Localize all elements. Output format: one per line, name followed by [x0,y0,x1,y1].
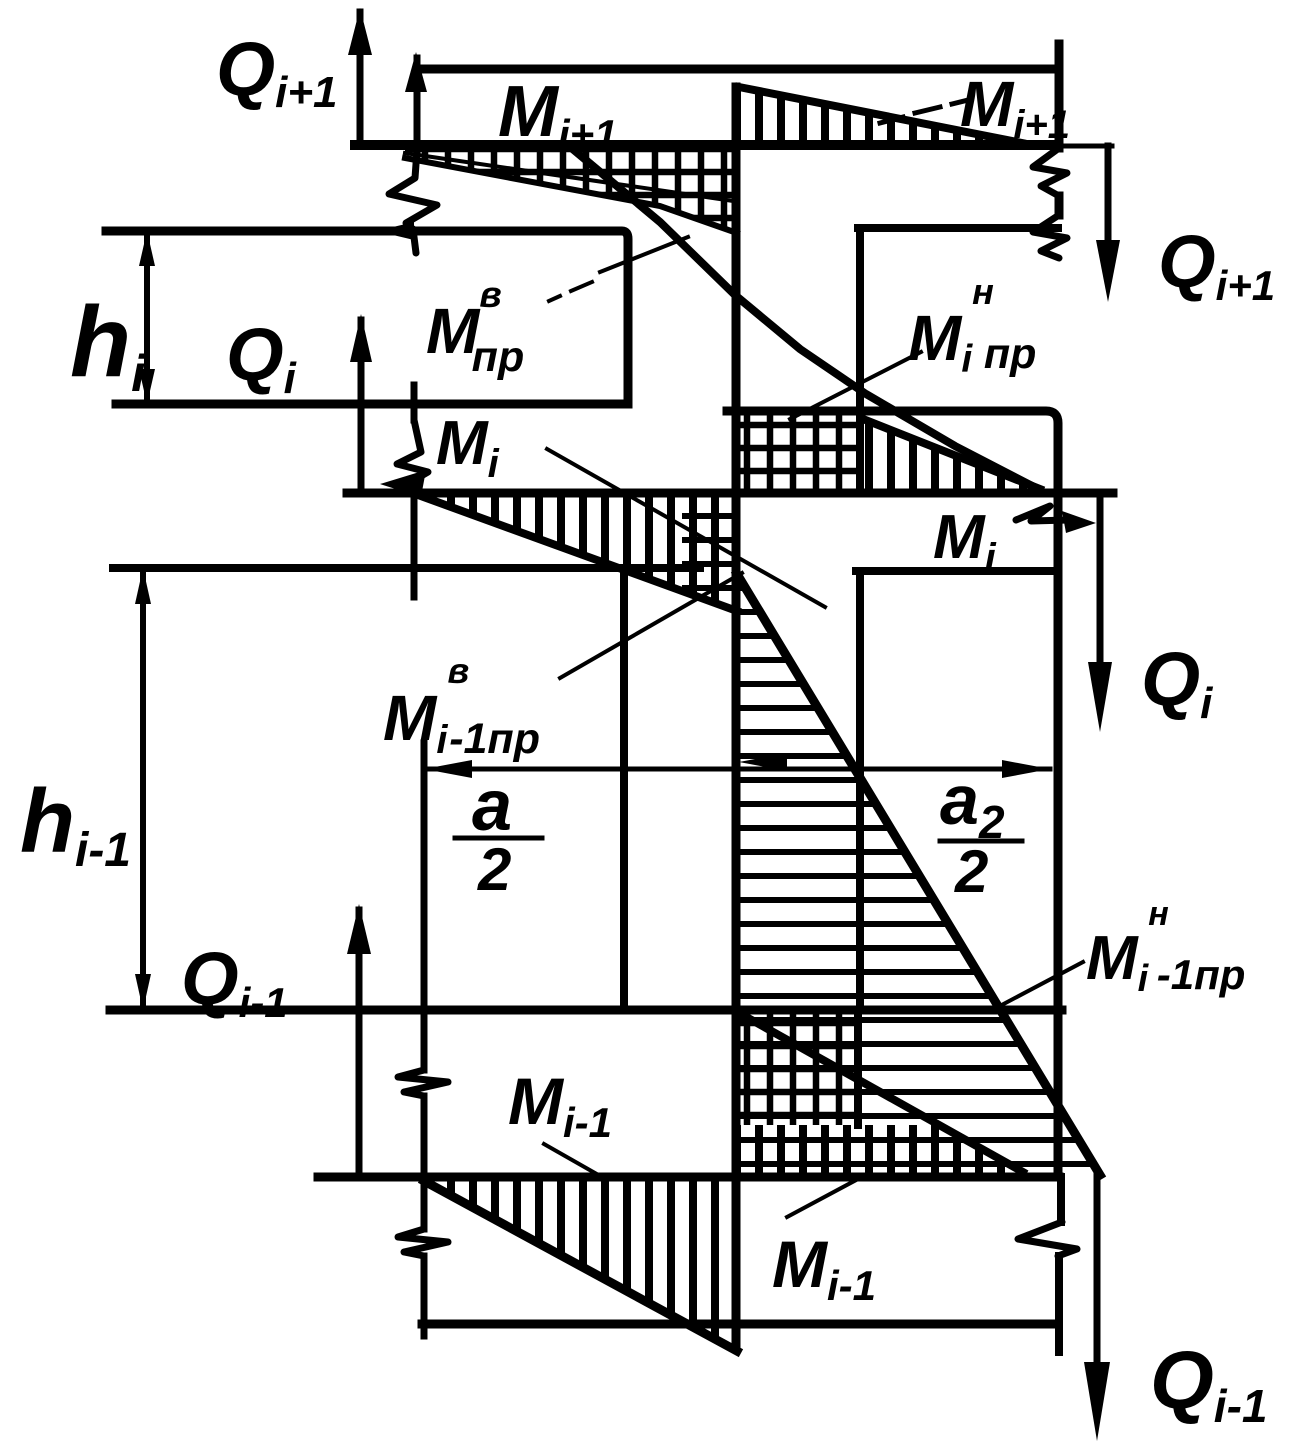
long diagonal D2 (column moment hypotenuse) [737,574,1100,1175]
bottom beam bottom chord [422,1320,1058,1329]
grid block at joint i right [737,415,860,489]
floor line i-1 [110,1006,1062,1015]
moment diagram at joint i left (vertical bars) [418,495,737,609]
box bottom (M v pr) [116,400,628,409]
leader M v i-1 pr [560,573,742,678]
floor line i top left [106,231,628,404]
main lines [106,12,1113,1370]
grid wedge bottom edge [405,158,737,233]
arrowhead Q_i-1 right down [1084,1362,1110,1441]
hypotenuse joint i left [418,495,737,611]
floor line i [347,489,1113,498]
hypotenuse joint i-1 right [741,1014,1023,1172]
arrowhead of M_i right zigzag [1062,511,1096,533]
fraction bar a/2 [455,836,542,841]
moment diagram M_i+1 over right support (vertical bars) [739,89,1020,146]
M n i pr box top [727,411,1058,1177]
break zigzag bottom right column [1018,1222,1077,1256]
leader M_i-1 right [787,1179,858,1217]
left cut vertical bottom [421,743,428,1336]
bottom left moment triangle M_i-1 (vertical bars) [424,1180,737,1351]
svg-text:a: a [472,766,512,846]
top beam bottom chord [355,140,1058,150]
svg-text:2: 2 [954,838,988,905]
grid overlay near column face at joint i left [682,495,737,609]
arrowhead Q_i+1 right down [1096,240,1120,302]
h_i-1 dim arrowheads [135,568,151,604]
arrow shaft Q_i+1 left [357,12,364,142]
arrowhead on floor line i top (break) [376,222,414,240]
break zigzag right column lower [1033,215,1067,258]
break zigzag right column upper [1033,148,1067,196]
leader M_i-1 left [544,1144,602,1177]
triangle at joint i right (vertical bars) [860,417,1038,489]
leader M_i left [547,449,825,607]
arrowhead top of beam end [405,52,427,92]
arrow shaft Q_i right [1097,492,1104,670]
shallow diagonal under top beam [405,153,733,201]
leader M n i pr [790,352,921,419]
hatched areas [405,89,1100,1351]
dim shaft h_i [144,233,150,402]
break zigzag beam i left end [397,420,428,486]
hypotenuse M_i+1 right [739,87,1022,143]
arrows [135,8,1120,1441]
arrow shaft Q_i+1 right [1105,146,1112,250]
column right face bottom pieces [1059,1177,1061,1352]
break zigzag top left [389,150,437,231]
hypotenuse joint i right [863,419,1040,489]
hypotenuse bottom left [424,1181,737,1351]
a2/2 dim arrowhead right [1002,760,1050,778]
left cut vertical top [414,58,421,150]
tick at top of Q_i+1 right [1058,144,1112,149]
arrowhead Q_i-1 left up [347,904,371,954]
h_i dim arrowheads [139,231,155,266]
a2/2 dim arrowhead mid-left [739,753,787,771]
break zigzag on x424 upper [398,1070,448,1096]
inner vertical x624 [620,568,628,1008]
svg-text:2: 2 [477,836,511,903]
left cut vertical mid ticks [411,385,418,597]
break zigzag arrow M_i right [1016,506,1068,521]
inner vertical x860 [858,228,860,1125]
top beam top chord [417,65,1058,74]
arrowhead Q_i left up [350,314,372,362]
leader dashes M_i+1 right [880,100,968,123]
big column moment triangle (horizontal bars) [737,578,1100,1175]
lower right box top [856,567,1058,575]
grid block at joint i-1 right [737,1013,858,1125]
arrow shaft Q_i-1 right [1094,1172,1101,1370]
leader M n i-1 pr [996,962,1083,1008]
floor line i top right [858,224,1058,232]
leader M v pr [600,237,688,272]
moment diagram under top beam left (grid wedge) [405,150,737,231]
arrowhead Q_i right down [1088,662,1112,732]
a/2 dim arrowhead left [424,760,472,778]
fraction bar a2/2 [940,839,1022,844]
arrowhead at beam i left end (break) [380,470,426,497]
arrowhead Q_i+1 left up [348,8,372,55]
arrow shaft Q_i-1 left [356,910,363,1177]
break zigzag on x424 lower [398,1229,448,1256]
column left face [732,87,741,1348]
dim shaft h_i-1 [140,570,146,1008]
bottom beam top chord [318,1173,1059,1182]
arrow shaft Q_i left [358,320,365,493]
vertical-bar band at joint i-1 right [737,1125,1023,1177]
column right face top piece [1055,44,1064,215]
dimension line a/2 a2/2 [424,767,1050,772]
long diagonal D1 [575,151,1038,489]
floor line i-1 top left [113,564,700,572]
